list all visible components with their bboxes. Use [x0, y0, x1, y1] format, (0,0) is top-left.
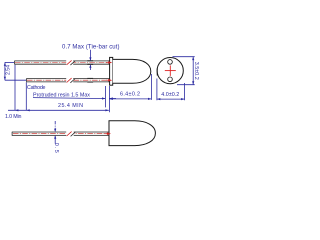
anode lead break — [66, 60, 75, 65]
cathode centerline arrow — [106, 79, 112, 82]
front view outline with flat — [157, 58, 183, 84]
svg-text:1.0 Min: 1.0 Min — [5, 114, 22, 120]
top view lead centerline — [13, 133, 107, 135]
cathode lead centerline — [27, 79, 108, 81]
dimension 0.7 leader arrows — [89, 50, 91, 70]
dimension 0.5 lead thickness — [54, 121, 56, 144]
svg-text:Cathode: Cathode — [27, 85, 46, 91]
svg-text:25.4 MIN: 25.4 MIN — [58, 103, 83, 109]
dimension 4.0 — [157, 79, 185, 101]
extension line body base — [108, 86, 110, 112]
cathode tie-bar bump — [87, 78, 93, 83]
svg-text:3.5±0.2: 3.5±0.2 — [193, 62, 199, 80]
anode lead — [15, 61, 110, 65]
svg-text:2.54: 2.54 — [5, 65, 11, 75]
LED body side view: dome body — [113, 59, 151, 83]
LED body side view: flange — [110, 57, 113, 85]
extension line resin limit — [104, 86, 106, 107]
front view cathode lead section — [168, 77, 173, 82]
dimension 2.54 — [4, 62, 26, 80]
top view lead break — [66, 131, 75, 136]
anode tie-bar bump — [87, 60, 93, 65]
extension line cathode tip — [25, 82, 27, 110]
top view centerline arrow — [105, 132, 112, 135]
top view body — [109, 121, 155, 146]
top view lead — [12, 132, 109, 136]
svg-text:6.4±0.2: 6.4±0.2 — [120, 91, 140, 97]
anode centerline arrow — [106, 61, 112, 64]
anode lead centerline — [15, 62, 108, 64]
front view anode lead section — [168, 60, 173, 65]
front view flat edge — [156, 69, 158, 76]
svg-text:0.7 Max (Tie-bar cut): 0.7 Max (Tie-bar cut) — [62, 44, 120, 50]
cathode lead break — [66, 78, 75, 83]
dimension 6.4 line — [109, 74, 151, 100]
protruded resin leader and arrows — [33, 97, 116, 99]
cathode lead — [27, 78, 110, 82]
dimension 3.5 vertical — [173, 57, 195, 85]
svg-text:4.0±0.2: 4.0±0.2 — [161, 92, 179, 98]
extension line anode tip — [14, 65, 16, 111]
front view center mark — [165, 65, 176, 76]
dimension line 25.4/1.0 — [8, 109, 109, 111]
svg-text:0.5: 0.5 — [53, 143, 59, 153]
